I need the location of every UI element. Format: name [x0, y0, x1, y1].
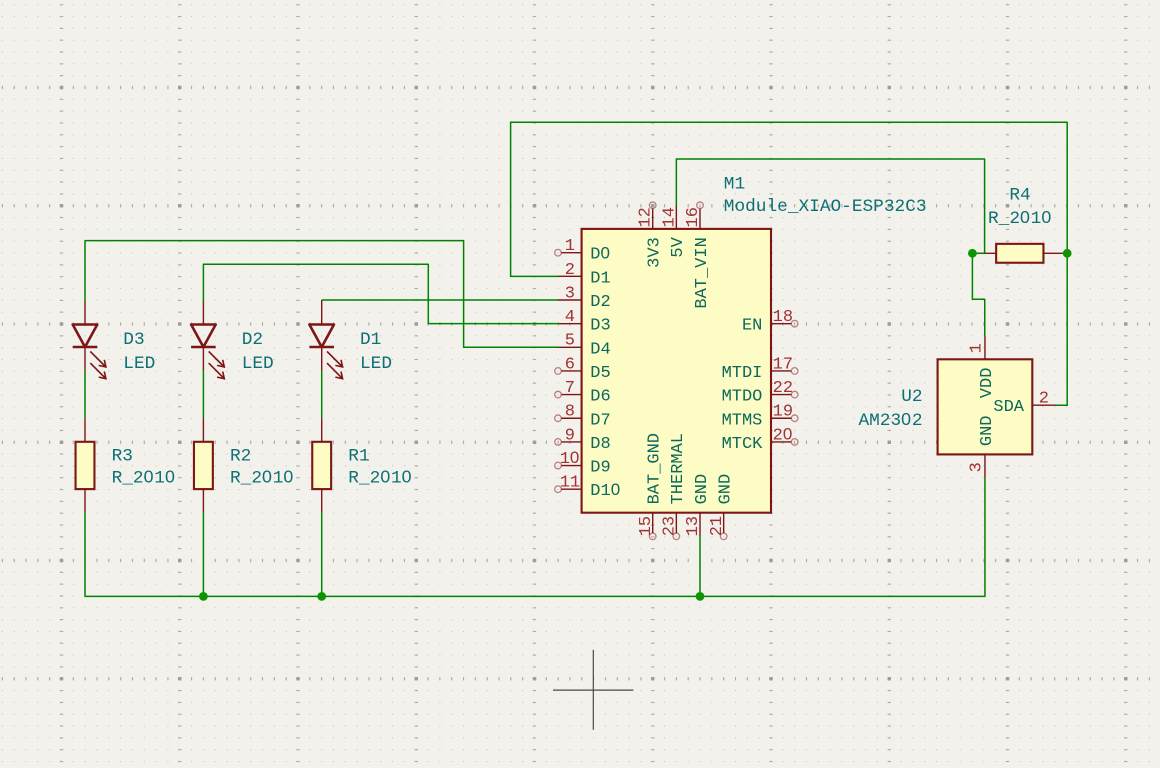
svg-text:14: 14 [660, 207, 679, 227]
pin 23 THERMAL (M1 bottom) [661, 433, 689, 540]
svg-text:15: 15 [637, 516, 656, 536]
reference U2 [901, 387, 922, 407]
svg-text:R_2010: R_2010 [348, 466, 412, 488]
wire D3 cathode to R3 [84, 371, 86, 419]
svg-text:3V3: 3V3 [646, 237, 665, 268]
module M1 Module_XIAO-ESP32C3 body [582, 229, 771, 513]
svg-text:D3: D3 [590, 317, 610, 336]
pin 16 BAT_VIN (M1 top) [684, 202, 712, 309]
svg-text:D1: D1 [360, 330, 381, 350]
pin 5 D4 (M1 left) [558, 332, 611, 360]
wire net VDD: R4 pin1 to U2 pin1 [972, 253, 984, 335]
resistor R1 R_2010 [312, 418, 331, 513]
reference D3 [123, 330, 144, 350]
LED D1 [309, 300, 342, 379]
wire 5V tail over R4 pin1 [972, 252, 984, 254]
resistor R2 R_2010 [194, 418, 213, 513]
value Module_XIAO-ESP32C3 [724, 197, 927, 217]
svg-text:R4: R4 [1009, 186, 1030, 206]
svg-text:1: 1 [565, 237, 575, 256]
svg-text:GND: GND [978, 415, 997, 446]
junction R2-GND bus [199, 592, 208, 601]
junction M1 GND bus [696, 592, 705, 601]
reference R2 [230, 447, 251, 467]
svg-text:R3: R3 [112, 447, 133, 467]
pin 19 MTMS (M1 right) [722, 403, 798, 431]
wire net: D1 anode to M1 pin3 [322, 299, 558, 301]
sensor U2 AM2302 body [938, 359, 1033, 454]
pin 14 5V (M1 top) [660, 205, 688, 257]
svg-text:LED: LED [123, 354, 155, 374]
value LED (D1) [360, 354, 392, 374]
svg-text:U2: U2 [901, 387, 922, 407]
wire M1 pin13 GND stub [699, 536, 701, 596]
pin 1 VDD (U2 top) [967, 336, 997, 399]
wire net D0: D3 anode to M1 pin5 [85, 241, 558, 348]
reference D1 [360, 330, 381, 350]
svg-text:D8: D8 [590, 435, 610, 454]
svg-text:AM2302: AM2302 [858, 409, 922, 431]
pin 17 MTDI (M1 right) [722, 355, 798, 383]
svg-text:EN: EN [742, 317, 762, 336]
pin 22 MTDO (M1 right) [722, 379, 798, 407]
svg-text:D4: D4 [590, 340, 610, 359]
svg-text:13: 13 [684, 516, 703, 536]
svg-text:MTDO: MTDO [722, 388, 763, 407]
wire net: D2 anode to M1 pin4 [203, 264, 558, 323]
svg-text:D1: D1 [590, 269, 610, 288]
wire D1 cathode to R1 [321, 371, 323, 419]
junction R4 pin2 / D1 loop / SDA [1063, 249, 1072, 258]
LED D3 [73, 301, 106, 379]
svg-text:D0: D0 [590, 244, 610, 265]
svg-text:5: 5 [565, 332, 575, 351]
pin 12 3V3 (M1 top) [637, 202, 665, 268]
svg-text:R2: R2 [230, 447, 251, 467]
pin 2 SDA (U2 right) [993, 389, 1056, 416]
pin 1 D0 (M1 left) [555, 237, 611, 265]
LED D2 [191, 301, 224, 379]
reference D2 [242, 330, 263, 350]
svg-text:MTCK: MTCK [722, 435, 764, 454]
reference R4 [1009, 186, 1030, 206]
value R_2010 (R2) [230, 466, 294, 488]
svg-text:MTDI: MTDI [722, 364, 763, 383]
resistor R3 R_2010 [76, 418, 95, 513]
reference R1 [348, 447, 369, 467]
svg-text:SDA: SDA [993, 398, 1024, 417]
wire net D1: M1 pin2 loop to R4 right / U2 SDA [511, 122, 1068, 405]
svg-text:LED: LED [360, 354, 392, 374]
svg-text:LED: LED [242, 354, 274, 374]
wire net 5V: M1 pin14 to R4 left [676, 159, 984, 253]
value AM2302 [858, 409, 922, 431]
pin 9 D8 (M1 left) [555, 426, 611, 454]
svg-text:Module_XIAO-ESP32C3: Module_XIAO-ESP32C3 [724, 197, 927, 217]
reference R3 [112, 447, 133, 467]
junction R4 pin1 / 5V / VDD [968, 249, 977, 258]
svg-text:M1: M1 [724, 174, 745, 194]
wire D2 cathode to R2 [202, 371, 204, 419]
svg-text:3: 3 [565, 284, 575, 303]
svg-text:R_2010: R_2010 [112, 466, 176, 488]
svg-text:D6: D6 [590, 388, 610, 407]
svg-text:GND: GND [717, 474, 736, 505]
svg-text:6: 6 [565, 355, 575, 374]
svg-text:2: 2 [1039, 389, 1049, 408]
pin 8 D7 (M1 left) [555, 403, 611, 431]
svg-text:D9: D9 [590, 459, 610, 478]
svg-text:GND: GND [693, 474, 712, 505]
wire R2 to GND bus [202, 513, 204, 597]
svg-text:D5: D5 [590, 364, 610, 383]
pin 18 EN (M1 right) [742, 308, 798, 336]
svg-text:20: 20 [773, 424, 793, 445]
value R_2010 (R4) [988, 207, 1052, 229]
svg-text:12: 12 [637, 207, 656, 227]
svg-text:23: 23 [661, 516, 680, 536]
svg-text:9: 9 [565, 426, 575, 445]
pin 21 GND (M1 bottom) [708, 474, 736, 540]
svg-text:D7: D7 [590, 411, 610, 430]
junction R1-GND bus [317, 592, 326, 601]
pin 20 MTCK (M1 right) [722, 424, 798, 454]
pin 7 D6 (M1 left) [555, 379, 611, 407]
svg-text:D3: D3 [123, 330, 144, 350]
origin crosshair marker [553, 650, 633, 730]
resistor R4 R_2010 [972, 244, 1067, 263]
value LED (D3) [123, 354, 155, 374]
svg-text:R_2010: R_2010 [230, 466, 294, 488]
svg-text:5V: 5V [669, 236, 688, 257]
pin 10 D9 (M1 left) [555, 448, 611, 478]
pin 6 D5 (M1 left) [555, 355, 611, 383]
svg-text:R_2010: R_2010 [988, 207, 1052, 229]
pin 3 D2 (M1 left) [558, 284, 611, 312]
svg-text:17: 17 [773, 355, 793, 374]
svg-text:2: 2 [565, 261, 575, 280]
svg-text:BAT_GND: BAT_GND [646, 433, 665, 504]
svg-text:22: 22 [773, 379, 793, 398]
svg-text:1: 1 [967, 343, 986, 353]
svg-text:16: 16 [684, 207, 703, 227]
wire R3 to GND bus [84, 513, 86, 597]
value R_2010 (R3) [112, 466, 176, 488]
wire GND bus [85, 478, 985, 596]
value LED (D2) [242, 354, 274, 374]
svg-text:18: 18 [773, 308, 793, 327]
pin 2 D1 (M1 left) [558, 261, 611, 289]
svg-text:BAT_VIN: BAT_VIN [693, 237, 712, 308]
value R_2010 (R1) [348, 466, 412, 488]
svg-text:3: 3 [967, 462, 986, 472]
svg-text:D2: D2 [242, 330, 263, 350]
svg-text:10: 10 [560, 448, 580, 469]
pin 15 BAT_GND (M1 bottom) [637, 433, 665, 540]
pin 13 GND (M1 bottom) [684, 474, 712, 537]
svg-text:R1: R1 [348, 447, 369, 467]
svg-text:D10: D10 [590, 480, 621, 501]
svg-text:19: 19 [773, 403, 793, 422]
reference M1 [724, 174, 745, 194]
svg-text:8: 8 [565, 403, 575, 422]
svg-text:7: 7 [565, 379, 575, 398]
svg-text:VDD: VDD [978, 368, 997, 399]
svg-text:11: 11 [560, 474, 580, 493]
svg-text:21: 21 [708, 516, 727, 536]
wire R1 to GND bus [321, 513, 323, 597]
pin 3 GND (U2 bottom) [967, 415, 997, 478]
pin 11 D10 (M1 left) [555, 474, 621, 502]
pin 4 D3 (M1 left) [558, 308, 611, 336]
svg-text:THERMAL: THERMAL [669, 433, 688, 504]
svg-text:4: 4 [565, 308, 575, 327]
svg-text:D2: D2 [590, 293, 610, 312]
svg-text:MTMS: MTMS [722, 411, 763, 430]
